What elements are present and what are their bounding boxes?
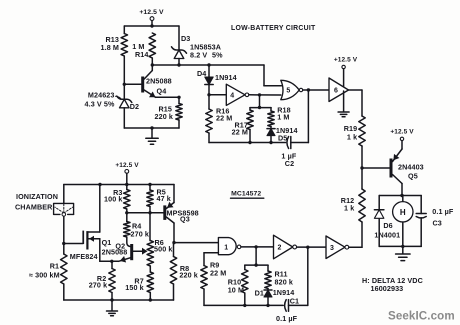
resistor R5: [147, 185, 171, 213]
nor gate 5: [281, 80, 303, 99]
svg-text:6: 6: [334, 88, 338, 95]
label horn note: [362, 276, 423, 293]
wire Q5 base: [362, 167, 390, 169]
wire gate6 output: [349, 90, 363, 116]
horn H: [393, 196, 413, 247]
resistor R6 potentiometer: [147, 213, 172, 272]
capacitor C2: [281, 137, 308, 168]
svg-text:1N914: 1N914: [215, 73, 237, 82]
svg-text:22 M: 22 M: [232, 128, 248, 137]
resistor R19: [344, 116, 366, 168]
label ionization chamber: [15, 192, 58, 212]
svg-text:≈ 300 kM: ≈ 300 kM: [29, 271, 60, 280]
wire horn bottom rail: [379, 245, 421, 248]
svg-text:R14: R14: [135, 50, 149, 59]
wire R14-D3-D4 node line: [151, 63, 264, 66]
resistor R13: [101, 26, 128, 84]
node Q3 collector: [172, 241, 175, 244]
diode D6: [374, 210, 400, 240]
resistor R11: [265, 265, 293, 288]
svg-text:270 k: 270 k: [89, 280, 108, 289]
svg-text:4.3 V 5%: 4.3 V 5%: [85, 100, 115, 109]
svg-text:2N5088: 2N5088: [146, 77, 172, 86]
svg-text:SeekIC.com: SeekIC.com: [388, 310, 455, 323]
wire bottom-left ground rail: [64, 298, 174, 301]
svg-text:D4: D4: [197, 69, 206, 78]
svg-text:M24623: M24623: [88, 91, 115, 100]
inverter gate 4: [209, 84, 249, 105]
power +12.5V Q5: [390, 129, 414, 150]
inverter gate 3: [326, 236, 349, 259]
ground horn: [396, 246, 411, 260]
svg-text:H: H: [400, 208, 406, 217]
svg-text:D3: D3: [181, 34, 190, 43]
svg-text:Q3: Q3: [180, 215, 190, 224]
node Q5 collector: [400, 194, 403, 197]
node R19-R12-Q5 base: [360, 166, 363, 169]
svg-text:4: 4: [230, 92, 234, 99]
wire osc bottom rail: [204, 304, 283, 307]
wire Q1 gate: [64, 243, 83, 245]
transistor Q5: [390, 149, 424, 196]
svg-text:D6: D6: [383, 221, 392, 230]
svg-text:16002933: 16002933: [371, 284, 404, 293]
svg-text:Q4: Q4: [157, 87, 167, 96]
svg-text:MFE824: MFE824: [70, 252, 98, 261]
svg-text:D2: D2: [130, 102, 139, 111]
svg-text:1.8 M: 1.8 M: [101, 43, 119, 52]
svg-text:+12.5 V: +12.5 V: [334, 57, 358, 64]
svg-text:LOW-BATTERY CIRCUIT: LOW-BATTERY CIRCUIT: [231, 25, 316, 32]
svg-text:Q5: Q5: [408, 172, 418, 181]
svg-text:1N914: 1N914: [273, 288, 295, 297]
transistor Q4: [124, 65, 179, 97]
node Q4 emitter D3 junction: [177, 96, 180, 99]
svg-text:2: 2: [278, 245, 282, 252]
svg-text:R1: R1: [50, 262, 59, 271]
title LOW-BATTERY CIRCUIT: [231, 25, 316, 32]
mosfet Q1: [70, 185, 128, 262]
resistor R7: [125, 272, 153, 300]
svg-text:+12.5 V: +12.5 V: [139, 9, 164, 16]
wire horn top rail: [379, 195, 421, 197]
svg-text:22 M: 22 M: [216, 114, 232, 123]
svg-text:C3: C3: [433, 219, 442, 228]
svg-text:1: 1: [224, 244, 228, 251]
diode D1: [255, 288, 295, 306]
svg-text:100 k: 100 k: [104, 194, 123, 203]
zener diode D2: [85, 84, 140, 128]
resistor R14: [132, 33, 155, 65]
diode D5: [267, 126, 298, 142]
resistor R12: [341, 168, 365, 247]
resistor R8: [170, 243, 198, 300]
capacitor C3: [416, 196, 454, 247]
resistor R3: [104, 185, 130, 213]
ground upper-left: [146, 128, 158, 144]
wire C1 feedback: [306, 246, 309, 306]
transistor Q3: [163, 185, 198, 243]
label MC14572: [231, 190, 264, 198]
wire horn left: [378, 196, 380, 247]
svg-text:500 k: 500 k: [154, 244, 173, 253]
svg-text:820 k: 820 k: [275, 278, 294, 287]
capacitor C1: [276, 297, 308, 324]
diode D4: [197, 65, 237, 95]
svg-text:150 k: 150 k: [125, 283, 144, 292]
svg-text:0.1 µF: 0.1 µF: [432, 207, 454, 216]
svg-text:C1: C1: [290, 297, 299, 306]
wire gate5 out to gate6: [303, 88, 329, 91]
wire Q1 source rail: [100, 260, 119, 263]
wire top bus: [124, 24, 179, 27]
node R3-R4: [125, 211, 128, 214]
power +12.5V supply top-left: [139, 9, 164, 26]
transistor Q2: [115, 242, 147, 263]
svg-text:D5: D5: [278, 134, 287, 143]
svg-text:270 k: 270 k: [131, 229, 150, 238]
svg-text:1 k: 1 k: [344, 204, 354, 213]
svg-text:22 M: 22 M: [210, 268, 226, 277]
inverter gate 2: [274, 235, 297, 259]
resistor R17: [232, 108, 254, 143]
svg-text:47 k: 47 k: [157, 194, 171, 203]
watermark SeekIC.com: [388, 310, 455, 323]
ionization chamber: [54, 185, 74, 244]
svg-text:3: 3: [330, 245, 334, 252]
wire NAND1 upper input: [174, 242, 218, 244]
wire R10-R11 node: [245, 247, 268, 267]
zener diode D3: [172, 26, 224, 65]
svg-text:Q1: Q1: [102, 238, 112, 247]
svg-text:D1: D1: [255, 289, 264, 298]
resistor R9: [201, 253, 227, 306]
nand gate 1: [218, 238, 241, 255]
ground gate6: [338, 91, 349, 117]
node chamber-R1-Q1gate: [62, 242, 65, 245]
wire R17 R18 top node: [250, 95, 271, 109]
svg-text:1 k: 1 k: [347, 133, 357, 142]
resistor R18: [268, 105, 291, 126]
node D4-R16 junction: [207, 93, 210, 96]
svg-text:C2: C2: [285, 159, 294, 168]
svg-text:2N4403: 2N4403: [398, 163, 424, 172]
svg-text:0.1 µF: 0.1 µF: [276, 314, 298, 323]
wire NAND1 lower input: [204, 252, 218, 254]
wire gate3 out to R12: [349, 246, 362, 248]
svg-text:1N4001: 1N4001: [374, 231, 400, 240]
svg-text:8.2 V: 8.2 V: [190, 51, 207, 60]
resistor R10: [228, 265, 248, 305]
svg-text:10 M: 10 M: [228, 285, 244, 294]
svg-text:+12.5 V: +12.5 V: [390, 129, 414, 136]
power +12.5V gate6: [334, 57, 358, 90]
wire low-batt bottom rail: [209, 141, 286, 144]
svg-text:IONIZATION: IONIZATION: [16, 192, 58, 201]
svg-text:+12.5 V: +12.5 V: [115, 162, 139, 169]
svg-text:5: 5: [286, 88, 290, 95]
wire mid bus: [64, 183, 174, 186]
resistor R15: [155, 97, 183, 128]
svg-text:220 k: 220 k: [155, 112, 174, 121]
resistor R1: [29, 244, 67, 301]
wire gate1 out to gate2: [241, 245, 274, 248]
wire gate5-C2 feedback: [307, 90, 309, 143]
resistor R16: [206, 95, 233, 143]
svg-text:220 k: 220 k: [179, 271, 198, 280]
buffer gate 6: [329, 78, 349, 102]
wire Q3 base line: [127, 211, 164, 214]
svg-text:1 M: 1 M: [277, 113, 289, 122]
wire gate2 out to gate3: [297, 246, 326, 248]
node Q4 base junction: [123, 83, 126, 86]
wire gate5 upper input: [264, 65, 282, 86]
wire bottom rail upper-left: [124, 126, 179, 129]
svg-text:5%: 5%: [212, 51, 223, 60]
wire gate4 out to gate5: [249, 93, 281, 96]
resistor R4: [124, 213, 149, 247]
ground bottom-left: [107, 300, 118, 316]
svg-text:CHAMBER: CHAMBER: [15, 203, 53, 212]
svg-text:MC14572: MC14572: [231, 190, 261, 197]
resistor R2: [89, 261, 116, 300]
power +12.5V mid-left: [115, 162, 139, 185]
svg-text:Q2: Q2: [115, 242, 125, 251]
